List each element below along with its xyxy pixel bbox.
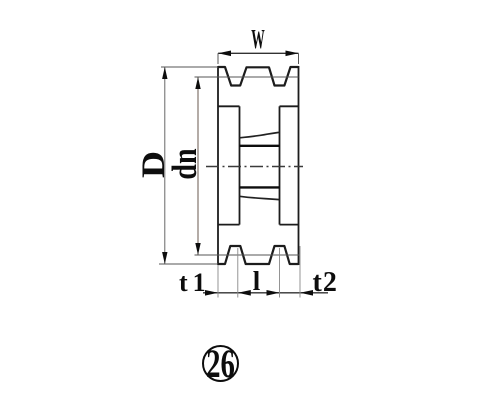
svg-text:t1: t1 — [179, 268, 211, 297]
svg-text:t2: t2 — [313, 267, 338, 298]
bottom dimension line t1 l t2 — [203, 292, 328, 294]
D bottom arrow — [162, 252, 167, 264]
W left extension tick — [217, 53, 219, 64]
D top extension line — [161, 66, 218, 68]
bore line upper — [240, 145, 280, 147]
D top arrow — [162, 67, 167, 79]
rim inner line bottom right — [280, 224, 299, 226]
dn bottom arrow — [195, 243, 200, 255]
dimension W line — [218, 52, 299, 54]
dn bottom extension line (pitch line) — [195, 254, 300, 256]
rim inner line top right — [280, 105, 299, 107]
hub left wall — [239, 106, 241, 224]
bushing taper line lower — [240, 196, 280, 199]
pulley left edge — [217, 66, 219, 265]
W right extension tick — [298, 53, 300, 64]
l right arrow — [267, 290, 280, 296]
pulley right edge — [298, 66, 300, 265]
t1 right-pointing arrow at left edge — [205, 290, 218, 296]
svg-text:l: l — [253, 266, 261, 296]
bushing taper line upper — [240, 132, 280, 138]
extension line right — [299, 246, 301, 298]
extension line groove 1 center — [237, 248, 239, 298]
extension line groove 2 center — [279, 248, 281, 298]
t2 left-pointing arrow at right — [300, 290, 313, 296]
dimension dn line — [197, 77, 199, 255]
W left arrow — [218, 51, 231, 57]
pulley top groove profile — [218, 67, 299, 86]
pulley bottom groove profile — [218, 246, 299, 264]
dn top extension line (pitch line) — [195, 76, 299, 78]
dn top arrow — [195, 77, 200, 89]
hub right wall — [279, 106, 281, 224]
extension line pulley left edge — [217, 265, 219, 298]
svg-text:W: W — [251, 24, 264, 54]
W right arrow — [286, 51, 299, 57]
D bottom extension line — [159, 263, 218, 265]
centerline (dash-dot axis) — [206, 166, 303, 168]
rim inner line top left — [218, 105, 240, 107]
rim inner line bottom left — [218, 224, 240, 226]
svg-text:dn: dn — [165, 148, 204, 179]
circled number 26 — [203, 346, 238, 381]
bore line lower — [240, 186, 280, 188]
l left arrow — [238, 290, 251, 296]
dimension D line — [164, 67, 166, 264]
svg-text:26: 26 — [206, 341, 235, 386]
